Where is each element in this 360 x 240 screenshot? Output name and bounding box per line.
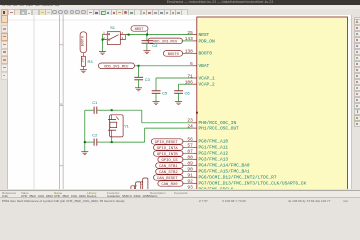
- svg-text:B: B: [60, 103, 62, 106]
- wire VCAP_1: [156, 78, 192, 90]
- pin 6 VBAT: [190, 61, 209, 69]
- svg-text:C2: C2: [92, 133, 98, 138]
- capacitor C1: [84, 100, 111, 114]
- svg-text:PG1/FMC_A11: PG1/FMC_A11: [198, 145, 228, 151]
- global label VDD_MCU upper: [148, 38, 182, 44]
- svg-text:PH0/RCC_OSC_IN: PH0/RCC_OSC_IN: [198, 120, 236, 126]
- svg-text:PG5/FMC_A15/FMC_BA1: PG5/FMC_A15/FMC_BA1: [198, 169, 249, 175]
- global label CAN_RX0: [157, 181, 191, 187]
- capacitor C2: [84, 133, 111, 146]
- pin 93 clipped: [187, 185, 233, 193]
- global label GPIO_INTB: [153, 151, 192, 157]
- pin 138 BOOT0: [184, 49, 212, 57]
- svg-text:C6: C6: [184, 91, 190, 96]
- wire pin3 jog up: [124, 35, 126, 40]
- pin 56 PG0: [187, 137, 228, 145]
- title bar: [0, 0, 360, 5]
- pin 25 NRST: [187, 30, 209, 38]
- pin 89 PG4: [187, 161, 250, 169]
- pin 90 PG5: [187, 167, 250, 175]
- svg-text:R3: R3: [87, 59, 93, 64]
- wire S1 left pins to ground: [101, 34, 103, 51]
- svg-text:92: 92: [187, 179, 193, 185]
- wire crystal bottom stub: [110, 137, 112, 142]
- resistor R3: [80, 56, 93, 66]
- ground below R3: [79, 70, 86, 73]
- svg-text:PG3/FMC_A13: PG3/FMC_A13: [198, 157, 228, 163]
- svg-text:138: 138: [184, 49, 192, 55]
- svg-text:6: 6: [190, 61, 193, 67]
- pin 91 PG6: [187, 173, 276, 181]
- svg-text:56: 56: [187, 137, 193, 143]
- node blob on U1 border: [195, 112, 197, 114]
- junction crystal bottom: [110, 141, 112, 143]
- capacitor C3: [134, 66, 150, 88]
- svg-text:24: 24: [187, 124, 193, 130]
- capacitor C6: [174, 91, 190, 102]
- svg-text:CAN_RX0: CAN_RX0: [161, 183, 178, 187]
- global label GPIO_INTA: [153, 145, 192, 151]
- svg-text:S1: S1: [110, 25, 116, 30]
- wire OSC_OUT: [111, 128, 192, 142]
- left toolbar: [0, 15, 8, 189]
- svg-text:C4: C4: [152, 43, 158, 48]
- svg-text:VCAP_1: VCAP_1: [198, 76, 214, 82]
- junction crystal top: [110, 109, 112, 111]
- svg-text:PG4/FMC_A14/FMC_BA0: PG4/FMC_A14/FMC_BA0: [198, 163, 249, 169]
- svg-text:BOOT0: BOOT0: [81, 36, 85, 46]
- switch S1: [102, 25, 128, 45]
- svg-text:BOOT0: BOOT0: [198, 51, 212, 57]
- svg-text:VCAP_2: VCAP_2: [198, 82, 214, 88]
- sheet border frame: [59, 15, 63, 189]
- svg-text:PG6/DCMI_D12/FMC_INT2/LTDC_R7: PG6/DCMI_D12/FMC_INT2/LTDC_R7: [198, 175, 276, 181]
- wire VBAT net: [134, 65, 192, 67]
- global label CAN_STB2: [155, 169, 192, 175]
- origin axis vertical: [33, 15, 35, 189]
- svg-text:VBAT: VBAT: [198, 63, 209, 69]
- svg-text:71: 71: [187, 73, 193, 79]
- pin 106 VCAP_2: [184, 80, 214, 88]
- status bar: [0, 197, 360, 204]
- vertical global label clipped C: [130, 186, 134, 191]
- schematic canvas: [8, 15, 351, 189]
- ground below C4: [143, 51, 150, 54]
- capacitor C5: [151, 91, 167, 102]
- pin 88 PG3: [187, 155, 228, 163]
- wire NRST net: [125, 34, 192, 36]
- svg-text:88: 88: [187, 155, 193, 161]
- crystal Y1: [108, 115, 130, 137]
- wire left rail to ground: [83, 110, 85, 151]
- global label VDD_MCU lower: [98, 63, 134, 69]
- menu bar: [0, 5, 360, 9]
- svg-text:89: 89: [187, 161, 193, 167]
- message panel: [0, 190, 360, 198]
- svg-text:C1: C1: [92, 100, 98, 105]
- global label BOOT0: [163, 51, 182, 57]
- svg-text:PH1/RCC_OSC_OUT: PH1/RCC_OSC_OUT: [198, 126, 239, 132]
- svg-text:C3: C3: [144, 77, 150, 82]
- vertical global label clipped A: [140, 178, 148, 191]
- svg-text:PDR_ON: PDR_ON: [198, 38, 214, 44]
- ground below C3: [135, 88, 142, 91]
- ground below S1: [99, 52, 106, 55]
- svg-text:C5: C5: [162, 91, 168, 96]
- svg-text:VDD_3V3_MCU: VDD_3V3_MCU: [104, 66, 128, 70]
- top toolbar: [0, 9, 360, 17]
- svg-text:90: 90: [187, 167, 193, 173]
- pin 24 PH1/RCC_OSC_OUT: [187, 124, 239, 132]
- wire VDD_MCU to pin 143: [181, 40, 192, 42]
- svg-text:87: 87: [187, 149, 193, 155]
- wire VCAP_2: [178, 84, 192, 90]
- svg-text:PG0/FMC_A10: PG0/FMC_A10: [198, 139, 228, 145]
- svg-text:BOOT0: BOOT0: [167, 53, 178, 57]
- wire BOOT0 to pin 138: [181, 52, 191, 54]
- svg-text:10k: 10k: [80, 57, 84, 62]
- wire BOOT0 label to R3: [82, 53, 84, 56]
- right toolbar: [351, 15, 360, 189]
- pin 57 PG1: [187, 143, 228, 151]
- op-amp U1 (MCU symbol body): [196, 17, 347, 193]
- pin 92 PG7: [187, 179, 306, 187]
- global label NRST: [131, 26, 148, 35]
- capacitor C4: [141, 35, 158, 51]
- svg-text:PG2/FMC_A12: PG2/FMC_A12: [198, 151, 228, 157]
- ground below rail: [81, 152, 88, 155]
- svg-text:NRST: NRST: [198, 32, 209, 38]
- vertical global label clipped B: [134, 182, 141, 191]
- ground below C6: [175, 102, 182, 105]
- global label CAN_STB1: [155, 163, 192, 169]
- svg-text:106: 106: [184, 80, 192, 86]
- pin 143 PDR_ON: [184, 36, 214, 44]
- svg-text:25: 25: [187, 30, 193, 36]
- pin 71 VCAP_1: [187, 73, 215, 81]
- global label CAN_RESET: [153, 175, 192, 181]
- wire OSC_IN: [111, 110, 192, 123]
- wire R3 to ground: [82, 66, 84, 69]
- vertical global label BOOT0: [80, 32, 87, 53]
- global label GPIO_CS: [157, 157, 191, 163]
- svg-text:PG7/DCMI_D13/FMC_INT3/LTDC_CLK: PG7/DCMI_D13/FMC_INT3/LTDC_CLK/USART6_CK: [198, 181, 306, 187]
- pin 23 PH0/RCC_OSC_IN: [187, 118, 236, 127]
- svg-text:143: 143: [184, 36, 192, 42]
- global label GPIO_RESET: [151, 139, 192, 145]
- svg-text:NRST: NRST: [134, 28, 144, 32]
- pin 87 PG2: [187, 149, 228, 157]
- svg-text:Y1: Y1: [124, 124, 130, 129]
- ground below C5: [152, 102, 159, 105]
- svg-text:91: 91: [187, 173, 193, 179]
- svg-text:57: 57: [187, 143, 193, 149]
- origin axis horizontal: [8, 19, 351, 21]
